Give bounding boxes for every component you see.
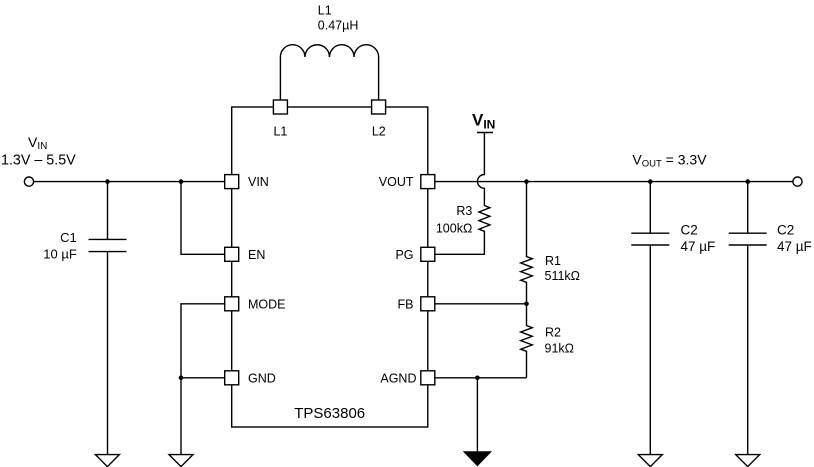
- svg-text:VOUT: VOUT: [379, 175, 414, 189]
- svg-text:GND: GND: [248, 371, 276, 385]
- svg-text:511kΩ: 511kΩ: [545, 269, 581, 283]
- svg-text:AGND: AGND: [380, 371, 416, 385]
- svg-text:MODE: MODE: [248, 297, 286, 311]
- svg-text:VIN: VIN: [248, 175, 269, 189]
- svg-text:TPS63806: TPS63806: [294, 405, 365, 422]
- svg-text:PG: PG: [395, 248, 413, 262]
- svg-text:L1: L1: [273, 125, 287, 139]
- svg-text:1.3V – 5.5V: 1.3V – 5.5V: [1, 152, 76, 168]
- svg-text:R1: R1: [545, 254, 561, 268]
- svg-text:C1: C1: [60, 230, 77, 245]
- svg-text:100kΩ: 100kΩ: [436, 221, 472, 235]
- svg-text:C2: C2: [777, 222, 794, 237]
- svg-text:47 µF: 47 µF: [777, 239, 812, 254]
- svg-text:R2: R2: [545, 325, 561, 339]
- svg-text:L1: L1: [318, 3, 332, 17]
- svg-text:EN: EN: [248, 248, 265, 262]
- svg-text:C2: C2: [681, 222, 698, 237]
- svg-text:L2: L2: [372, 125, 386, 139]
- svg-text:0.47µH: 0.47µH: [318, 19, 359, 33]
- svg-text:10 µF: 10 µF: [43, 246, 77, 261]
- svg-text:47 µF: 47 µF: [681, 239, 716, 254]
- svg-text:91kΩ: 91kΩ: [545, 341, 575, 355]
- svg-text:R3: R3: [456, 204, 472, 218]
- svg-text:FB: FB: [398, 297, 414, 311]
